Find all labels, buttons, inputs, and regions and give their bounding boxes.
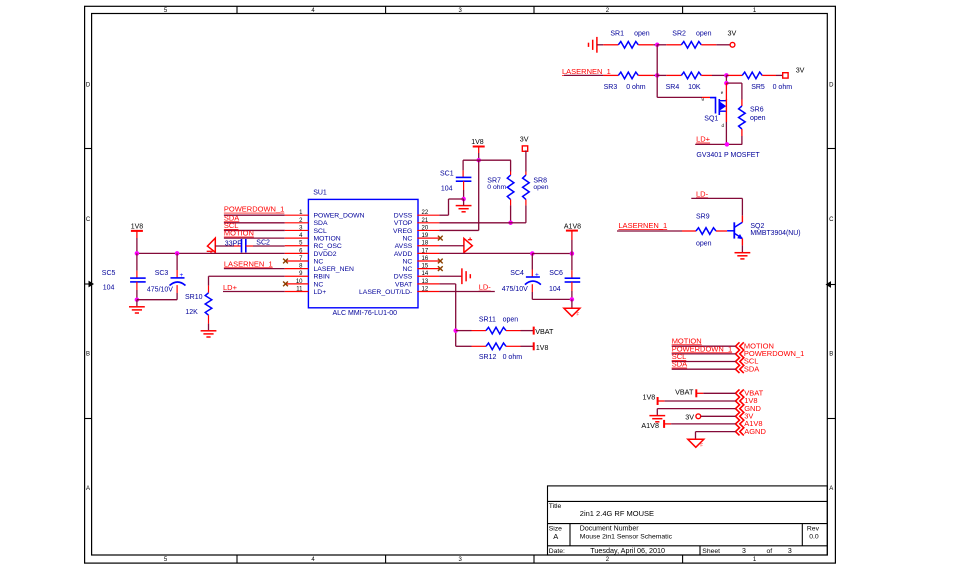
svg-text:MMBT3904(NU): MMBT3904(NU) bbox=[750, 230, 800, 237]
svg-text:Title: Title bbox=[549, 503, 562, 510]
wire LASER_OUT/LD- bbox=[439, 291, 494, 293]
wire VTOP bbox=[439, 222, 526, 224]
resistor SR4 bbox=[666, 72, 702, 91]
svg-text:LD+: LD+ bbox=[696, 135, 711, 144]
resistor SR3 bbox=[604, 72, 646, 91]
svg-text:NC: NC bbox=[314, 281, 324, 288]
no-connect X pin 10 bbox=[283, 281, 288, 286]
svg-text:A: A bbox=[553, 532, 558, 541]
wire bbox=[725, 83, 727, 100]
ground (SQ2 emitter) bbox=[735, 253, 751, 259]
svg-text:3V: 3V bbox=[520, 134, 529, 143]
svg-text:1V8: 1V8 bbox=[536, 345, 549, 352]
svg-text:MOTION: MOTION bbox=[224, 229, 254, 238]
svg-text:A1V8: A1V8 bbox=[641, 421, 659, 430]
ground (SR10) bbox=[201, 331, 217, 337]
wire bbox=[532, 253, 572, 255]
wire (emitter) bbox=[741, 239, 743, 253]
wire DVSS pin14 to ground bbox=[439, 275, 461, 277]
svg-text:DVSS: DVSS bbox=[394, 213, 413, 220]
transistor SQ1 GV3401 P MOSFET bbox=[702, 90, 727, 128]
wire bbox=[638, 74, 657, 76]
svg-text:LD+: LD+ bbox=[314, 289, 327, 296]
terminal 3V (circle) bbox=[728, 28, 737, 47]
svg-text:A: A bbox=[86, 486, 90, 492]
wire bbox=[726, 83, 742, 99]
power symbol VBAT bbox=[675, 388, 696, 398]
wire GND bbox=[657, 409, 735, 416]
connector pin labels (power) bbox=[744, 388, 766, 435]
svg-text:LD-: LD- bbox=[479, 283, 492, 292]
svg-text:NC: NC bbox=[402, 258, 412, 265]
wire bbox=[597, 44, 618, 46]
resistor SR6 bbox=[739, 100, 766, 145]
svg-text:SR11: SR11 bbox=[479, 316, 496, 323]
wire bbox=[657, 74, 681, 76]
svg-text:open: open bbox=[696, 30, 712, 37]
net label LD+ bbox=[696, 135, 711, 144]
svg-text:0 ohm: 0 ohm bbox=[626, 84, 646, 91]
transistor SQ2 MMBT3904(NU) bbox=[727, 222, 800, 239]
node junction (SR4/SR5/SQ1) bbox=[724, 73, 729, 78]
net label LD+ bbox=[223, 283, 238, 292]
wire bbox=[246, 245, 285, 247]
svg-text:Date:: Date: bbox=[549, 548, 565, 555]
wire bbox=[224, 268, 285, 270]
svg-text:VBAT: VBAT bbox=[535, 327, 554, 336]
wire bbox=[525, 150, 527, 175]
capacitor SC3 475/10V bbox=[147, 253, 186, 299]
svg-text:SR5: SR5 bbox=[751, 84, 765, 91]
svg-text:1V8: 1V8 bbox=[131, 223, 144, 230]
ground AGND (connector) bbox=[688, 439, 704, 447]
svg-text:Tuesday, April 06, 2010: Tuesday, April 06, 2010 bbox=[590, 546, 665, 555]
wire bbox=[215, 245, 241, 247]
net label LD- bbox=[479, 283, 492, 292]
svg-text:LD+: LD+ bbox=[223, 283, 238, 292]
svg-text:LASERNEN_1: LASERNEN_1 bbox=[562, 67, 611, 76]
svg-text:19: 19 bbox=[422, 233, 429, 239]
svg-text:C: C bbox=[829, 217, 834, 223]
svg-text:SC1: SC1 bbox=[440, 170, 454, 177]
svg-text:SR10: SR10 bbox=[185, 294, 203, 301]
wire bbox=[716, 230, 727, 232]
svg-text:2in1 2.4G RF MOUSE: 2in1 2.4G RF MOUSE bbox=[580, 509, 654, 518]
power symbol 1V8 bbox=[471, 139, 485, 160]
svg-text:SC5: SC5 bbox=[102, 270, 116, 277]
capacitor SC5 104 bbox=[102, 253, 146, 299]
off-page connector (AVSS) bbox=[439, 238, 472, 252]
ground (connector GND) bbox=[649, 416, 665, 422]
svg-text:RBIN: RBIN bbox=[314, 274, 330, 281]
svg-text:open: open bbox=[634, 30, 650, 37]
svg-text:14: 14 bbox=[422, 271, 429, 277]
svg-text:open: open bbox=[533, 184, 548, 191]
svg-text:Rev: Rev bbox=[807, 526, 820, 533]
wire bbox=[656, 45, 658, 76]
svg-text:LASERNEN_1: LASERNEN_1 bbox=[224, 259, 273, 268]
wire bbox=[223, 291, 285, 293]
wire bbox=[224, 222, 285, 224]
svg-text:SR2: SR2 bbox=[672, 30, 686, 37]
IC SU1 pin stubs left bbox=[285, 215, 309, 291]
wire AGND bbox=[696, 432, 736, 440]
title block texts bbox=[549, 503, 820, 555]
svg-text:104: 104 bbox=[441, 186, 453, 193]
resistor SR12 0 ohm bbox=[456, 343, 534, 361]
svg-text:POWER_DOWN: POWER_DOWN bbox=[314, 213, 365, 220]
label GV3401 P MOSFET bbox=[696, 152, 760, 159]
svg-text:NC: NC bbox=[402, 235, 412, 242]
svg-text:C: C bbox=[86, 217, 91, 223]
svg-text:1V8: 1V8 bbox=[471, 139, 484, 146]
wire bbox=[136, 300, 138, 307]
resistor SR9 bbox=[696, 213, 716, 247]
svg-text:VBAT: VBAT bbox=[675, 388, 694, 397]
svg-text:1V8: 1V8 bbox=[643, 392, 656, 401]
net label LD- bbox=[696, 189, 709, 198]
wire VREG bbox=[439, 160, 478, 230]
svg-text:MOTION: MOTION bbox=[314, 235, 341, 242]
wire bbox=[672, 368, 736, 370]
power symbol 1V8 bbox=[131, 223, 144, 253]
wire bbox=[672, 361, 736, 363]
no-connect X pin 19 bbox=[438, 236, 443, 241]
svg-text:A1V8: A1V8 bbox=[564, 224, 581, 231]
node junction bbox=[453, 328, 458, 333]
svg-text:open: open bbox=[750, 115, 766, 122]
net label SCL bbox=[224, 221, 239, 230]
IC SU1 body bbox=[308, 190, 418, 317]
svg-text:13: 13 bbox=[422, 279, 429, 285]
svg-text:11: 11 bbox=[296, 287, 303, 293]
svg-text:SR1: SR1 bbox=[610, 30, 624, 37]
net label LASERNEN_1 bbox=[618, 221, 667, 230]
power symbol 1V8 bbox=[643, 392, 658, 405]
svg-text:0 ohm: 0 ohm bbox=[487, 184, 506, 191]
no-connect X pin 15 bbox=[438, 266, 443, 271]
svg-text:SDA: SDA bbox=[744, 364, 759, 373]
net label LASERNEN_1 bbox=[562, 67, 611, 76]
border zone tick marks bbox=[85, 6, 836, 563]
svg-text:POWERDOWN_1: POWERDOWN_1 bbox=[224, 205, 284, 214]
svg-text:12: 12 bbox=[422, 287, 429, 293]
wire bbox=[463, 159, 511, 161]
svg-text:F: F bbox=[700, 443, 703, 448]
wire bbox=[726, 74, 742, 76]
svg-text:SU1: SU1 bbox=[313, 190, 327, 197]
svg-text:SC3: SC3 bbox=[155, 270, 169, 277]
svg-text:SDA: SDA bbox=[314, 220, 328, 227]
terminal 3V (square) bbox=[520, 134, 529, 151]
wire bbox=[672, 345, 736, 347]
wire bbox=[571, 299, 573, 308]
resistor SR11 open bbox=[456, 316, 534, 334]
svg-text:3: 3 bbox=[788, 548, 792, 555]
terminal 3V (square) bbox=[783, 65, 805, 78]
wire (drain to LD+) bbox=[725, 99, 727, 144]
wire bbox=[696, 392, 735, 394]
resistor SR8 open bbox=[523, 175, 549, 223]
svg-text:D: D bbox=[86, 83, 91, 89]
svg-text:+: + bbox=[535, 271, 539, 278]
wire bbox=[617, 230, 696, 232]
node junction (SQ1 source / SR6) bbox=[724, 81, 729, 86]
node junction bbox=[461, 197, 466, 202]
net label POWERDOWN_1 bbox=[672, 344, 732, 353]
wire 1V8 rail bbox=[137, 252, 285, 254]
ground (SC5) bbox=[129, 307, 145, 313]
wire bbox=[762, 74, 783, 76]
svg-text:AVSS: AVSS bbox=[395, 243, 413, 250]
svg-text:12K: 12K bbox=[185, 309, 198, 316]
wire bbox=[657, 44, 681, 46]
node junction bbox=[135, 251, 140, 256]
svg-text:3V: 3V bbox=[796, 65, 805, 74]
svg-text:B: B bbox=[829, 352, 833, 358]
off-page connector chevrons (power group) bbox=[736, 389, 744, 435]
border center arrow right bbox=[826, 281, 836, 288]
svg-text:Sheet: Sheet bbox=[702, 548, 720, 555]
sheet inner border frame bbox=[92, 14, 828, 556]
svg-text:475/10V: 475/10V bbox=[147, 287, 173, 294]
wire bbox=[701, 415, 736, 417]
IC SU1 pin stubs right bbox=[417, 215, 439, 291]
svg-text:SC4: SC4 bbox=[510, 270, 524, 277]
svg-text:LD-: LD- bbox=[696, 189, 709, 198]
svg-text:VBAT: VBAT bbox=[395, 281, 412, 288]
terminal 3V (circle) bbox=[685, 412, 700, 421]
node junction bbox=[530, 251, 535, 256]
svg-text:SR6: SR6 bbox=[750, 107, 764, 114]
wire bbox=[658, 400, 736, 402]
capacitor SC4 475/10V bbox=[502, 254, 541, 300]
power symbol A1V8 bbox=[564, 224, 581, 254]
svg-text:0 ohm: 0 ohm bbox=[503, 354, 523, 361]
connector pin labels (signals) bbox=[744, 341, 804, 373]
node junction bbox=[135, 297, 140, 302]
node junction bbox=[570, 251, 575, 256]
wire AVDD bbox=[439, 252, 532, 254]
wire bbox=[564, 74, 618, 76]
svg-text:SR3: SR3 bbox=[604, 84, 618, 91]
power symbol VBAT bbox=[534, 327, 554, 337]
svg-text:20: 20 bbox=[422, 225, 429, 231]
svg-text:16: 16 bbox=[422, 256, 429, 262]
no-connect X pin 16 bbox=[438, 259, 443, 264]
node junction LD+ bbox=[725, 142, 730, 147]
svg-text:RC_OSC: RC_OSC bbox=[314, 243, 342, 250]
svg-text:33PF: 33PF bbox=[225, 240, 242, 247]
svg-text:18: 18 bbox=[422, 241, 429, 247]
node junction (LASERNEN_1 / gate) bbox=[655, 73, 660, 78]
svg-text:21: 21 bbox=[422, 218, 429, 224]
wire bbox=[701, 44, 730, 46]
svg-text:SCL: SCL bbox=[314, 228, 327, 235]
wire LD- bbox=[691, 198, 742, 215]
svg-text:104: 104 bbox=[103, 284, 115, 291]
svg-text:SC2: SC2 bbox=[256, 239, 270, 246]
svg-text:10: 10 bbox=[296, 279, 303, 285]
svg-text:NC: NC bbox=[314, 258, 324, 265]
svg-text:ALC MMI-76-LU1-00: ALC MMI-76-LU1-00 bbox=[333, 310, 398, 317]
svg-text:D: D bbox=[829, 83, 834, 89]
ground (left of SR1) bbox=[589, 37, 597, 53]
svg-text:SQ1: SQ1 bbox=[704, 115, 718, 122]
net label POWERDOWN_1 bbox=[224, 205, 284, 214]
svg-text:SDA: SDA bbox=[672, 360, 687, 369]
net label MOTION bbox=[224, 229, 254, 238]
svg-text:3V: 3V bbox=[685, 412, 694, 421]
svg-text:+: + bbox=[180, 272, 184, 279]
svg-text:17: 17 bbox=[422, 248, 429, 254]
svg-text:open: open bbox=[503, 316, 519, 323]
resistor SR5 bbox=[742, 72, 792, 91]
svg-text:VREG: VREG bbox=[393, 228, 412, 235]
node junction bbox=[570, 297, 575, 302]
off-page connector chevrons (signal group) bbox=[736, 342, 744, 373]
wire (collector) bbox=[741, 216, 743, 223]
wire LD+ bbox=[695, 143, 742, 145]
wire (RBIN to SR10) bbox=[209, 276, 285, 285]
svg-text:GV3401 P MOSFET: GV3401 P MOSFET bbox=[696, 152, 760, 159]
svg-text:LASERNEN_1: LASERNEN_1 bbox=[618, 221, 667, 230]
net label LASERNEN_1 bbox=[224, 259, 273, 268]
svg-text:F: F bbox=[577, 312, 580, 317]
wire bbox=[664, 423, 735, 425]
title block frame bbox=[548, 486, 828, 555]
node junction bbox=[476, 158, 481, 163]
svg-text:Document Number: Document Number bbox=[580, 526, 639, 533]
wire bbox=[224, 229, 285, 231]
node junction bbox=[508, 220, 512, 225]
power symbol 1V8 bbox=[534, 342, 549, 352]
net label SCL bbox=[672, 352, 687, 361]
ground (SC1) bbox=[456, 199, 472, 212]
ground AGND (SC4/SC6) bbox=[564, 308, 580, 316]
IC SU1 pin numbers and names bbox=[296, 210, 429, 296]
svg-text:SR9: SR9 bbox=[696, 213, 710, 220]
svg-text:AGND: AGND bbox=[744, 427, 766, 436]
no-connect X pin 7 bbox=[283, 259, 288, 264]
svg-text:NC: NC bbox=[402, 266, 412, 273]
net label MOTION bbox=[672, 336, 702, 345]
svg-text:15: 15 bbox=[422, 264, 429, 270]
svg-text:B: B bbox=[86, 352, 90, 358]
svg-text:3: 3 bbox=[742, 548, 746, 555]
svg-text:SC6: SC6 bbox=[549, 270, 563, 277]
capacitor SC2 33PF bbox=[225, 239, 270, 253]
svg-text:VTOP: VTOP bbox=[394, 220, 413, 227]
wire VBAT pin13 bbox=[439, 284, 455, 346]
wire bbox=[224, 237, 285, 239]
svg-text:A: A bbox=[829, 486, 833, 492]
capacitor SC6 104 bbox=[549, 254, 580, 300]
wire bbox=[224, 214, 285, 216]
wire (gate) bbox=[657, 75, 710, 97]
svg-text:475/10V: 475/10V bbox=[502, 286, 528, 293]
wire bbox=[672, 353, 736, 355]
svg-text:SR4: SR4 bbox=[666, 84, 680, 91]
sheet outer border frame bbox=[85, 6, 836, 563]
wire bbox=[725, 75, 727, 83]
svg-text:0.0: 0.0 bbox=[809, 533, 819, 540]
ground (pin 14, sideways) bbox=[462, 268, 470, 284]
resistor SR2 bbox=[672, 30, 711, 48]
border zone labels bbox=[86, 8, 834, 563]
node junction SR1/SR2 bbox=[655, 43, 660, 48]
wire bbox=[137, 299, 177, 301]
net label SDA bbox=[672, 360, 687, 369]
svg-text:DVSS: DVSS bbox=[394, 274, 413, 281]
wire (DVSS pin22 to SC1 ground) bbox=[439, 199, 463, 215]
svg-text:104: 104 bbox=[549, 286, 561, 293]
resistor SR7 0 ohm bbox=[487, 160, 514, 223]
svg-text:10K: 10K bbox=[688, 84, 701, 91]
border center arrow left bbox=[85, 281, 94, 288]
svg-text:22: 22 bbox=[422, 210, 429, 216]
net label SDA bbox=[224, 213, 239, 222]
svg-text:0 ohm: 0 ohm bbox=[773, 84, 793, 91]
svg-text:3V: 3V bbox=[728, 28, 737, 37]
wire bbox=[638, 44, 657, 46]
wire bbox=[532, 298, 572, 300]
svg-text:AVDD: AVDD bbox=[394, 251, 412, 258]
svg-text:LASER_OUT/LD-: LASER_OUT/LD- bbox=[359, 289, 412, 296]
wire bbox=[701, 74, 726, 76]
resistor SR1 bbox=[610, 30, 649, 48]
capacitor SC1 104 bbox=[440, 160, 471, 199]
off-page connector (RC_OSC) bbox=[207, 238, 216, 253]
node junction bbox=[175, 251, 180, 256]
svg-text:of: of bbox=[767, 548, 773, 555]
svg-text:Mouse 2in1 Sensor Schematic: Mouse 2in1 Sensor Schematic bbox=[580, 533, 673, 540]
svg-text:SR12: SR12 bbox=[479, 354, 497, 361]
svg-text:LASER_NEN: LASER_NEN bbox=[314, 266, 355, 273]
resistor SR10 12K bbox=[185, 286, 212, 331]
svg-text:DVDD2: DVDD2 bbox=[314, 251, 337, 258]
power symbol A1V8 bbox=[641, 420, 664, 430]
svg-text:open: open bbox=[696, 241, 712, 248]
